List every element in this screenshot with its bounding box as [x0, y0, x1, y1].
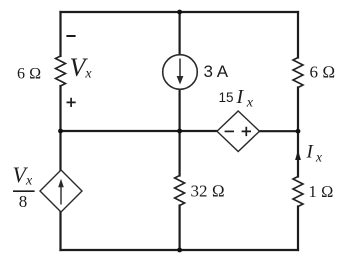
- minus sign of Vx: [66, 35, 75, 37]
- dependent source Vx/8 diamond: [40, 170, 82, 212]
- arrow up inside Vx/8 diamond: [60, 187, 62, 205]
- svg-text:6 Ω: 6 Ω: [310, 63, 336, 82]
- wire middle horizontal right: [259, 130, 298, 132]
- svg-text:1 Ω: 1 Ω: [309, 182, 334, 201]
- resistor R 32ohm zigzag: [175, 176, 185, 206]
- svg-text:Vx: Vx: [13, 162, 33, 189]
- node dot right middle: [296, 129, 301, 134]
- svg-text:32 Ω: 32 Ω: [191, 182, 225, 201]
- wire left vertical middle: [59, 86, 61, 171]
- resistor R 6ohm left zigzag: [56, 56, 66, 86]
- wire middle horizontal left: [61, 130, 218, 132]
- node dot center: [177, 129, 182, 134]
- current source 3A arrow: [179, 59, 181, 77]
- svg-text:Ix: Ix: [306, 142, 323, 165]
- wire right vertical mid: [297, 88, 299, 177]
- dependent source 15Ix diamond: [217, 111, 260, 152]
- fraction bar: [13, 190, 35, 192]
- wire left vertical top: [59, 12, 61, 56]
- minus inside diamond: [225, 130, 234, 132]
- plus sign of Vx: [67, 98, 76, 107]
- resistor R 6ohm right zigzag: [293, 58, 303, 88]
- svg-text:Ix: Ix: [236, 86, 254, 111]
- svg-text:6 Ω: 6 Ω: [17, 66, 41, 83]
- node dot bottom middle: [177, 248, 182, 253]
- svg-text:Vx: Vx: [70, 53, 93, 82]
- svg-text:8: 8: [19, 192, 28, 211]
- svg-text:3 A: 3 A: [204, 62, 229, 81]
- node dot top middle: [177, 10, 182, 15]
- wire top horizontal: [61, 11, 299, 13]
- wire right vertical top: [297, 12, 299, 58]
- wire middle vertical bottom: [179, 206, 181, 251]
- wire middle vertical top: [179, 12, 181, 55]
- plus inside diamond: [242, 127, 251, 136]
- current arrow Ix on right wire: [295, 150, 301, 160]
- current source 3A circle: [163, 55, 198, 90]
- resistor R 1ohm zigzag: [293, 177, 303, 207]
- node dot left middle: [58, 129, 63, 134]
- wire left vertical bottom: [59, 212, 61, 250]
- wire bottom horizontal: [61, 249, 299, 251]
- svg-text:15: 15: [219, 90, 234, 105]
- wire right vertical bottom: [297, 207, 299, 251]
- wire middle vertical mid: [179, 89, 181, 175]
